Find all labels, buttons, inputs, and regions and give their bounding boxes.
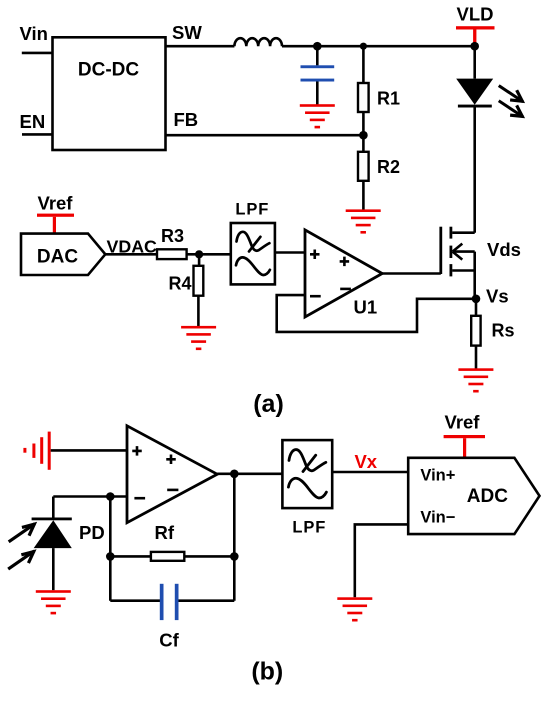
- wire to photodiode: [52, 497, 55, 518]
- node inverting input junction: [106, 492, 115, 501]
- LED arrows: [500, 86, 522, 116]
- wire Vin input: [22, 52, 53, 55]
- wire Vs to Rs: [475, 299, 478, 316]
- resistor R1: [358, 83, 369, 112]
- svg-text:SW: SW: [172, 22, 202, 43]
- node Rf right: [230, 552, 239, 561]
- ground (R2): [346, 209, 381, 233]
- svg-text:VDAC: VDAC: [107, 236, 158, 256]
- wire R1 to FB node: [362, 112, 365, 135]
- wire R2 to ground: [362, 181, 365, 210]
- capacitor C1 (blue): [301, 65, 335, 81]
- supply tee VLD (red): [456, 26, 495, 45]
- resistor R3: [157, 249, 187, 259]
- svg-text:R1: R1: [377, 89, 400, 109]
- svg-text:LPF: LPF: [235, 201, 269, 219]
- svg-text:Cf: Cf: [159, 629, 179, 650]
- node R4 junction: [195, 250, 203, 258]
- wire SW to inductor: [166, 45, 235, 48]
- op-amp U1 input signs: [310, 250, 351, 297]
- resistor R4: [194, 266, 204, 296]
- ground (R4): [181, 326, 216, 350]
- LPF block (top): [231, 223, 275, 284]
- svg-text:Vx: Vx: [354, 451, 377, 472]
- transistor Q1 (NMOS): [441, 227, 475, 299]
- svg-text:Rf: Rf: [155, 522, 175, 543]
- resistor R2: [358, 152, 369, 181]
- wire output right rail: [233, 474, 236, 601]
- wire EN input: [22, 133, 53, 136]
- svg-text:R2: R2: [377, 157, 400, 177]
- wire PD anode to ground: [52, 548, 55, 590]
- svg-text:DC-DC: DC-DC: [78, 59, 139, 80]
- wire node to R2: [362, 135, 365, 152]
- wire LPF to opamp +: [275, 251, 305, 254]
- resistor Rs: [471, 316, 480, 346]
- svg-text:ADC: ADC: [467, 486, 508, 507]
- svg-text:Vref: Vref: [445, 412, 481, 433]
- DC-DC converter block: [53, 37, 166, 150]
- ground (capacitor): [300, 104, 335, 128]
- DAC block: [21, 234, 105, 275]
- svg-text:Vds: Vds: [487, 239, 521, 260]
- wire feedback Vs to opamp inverting input: [277, 295, 476, 332]
- ground rotated (opamp b non-inverting): [23, 432, 50, 470]
- svg-text:R3: R3: [161, 226, 184, 246]
- node opamp b output: [230, 470, 239, 479]
- wire opamp output to gate: [382, 272, 441, 275]
- LED D1: [456, 79, 493, 108]
- ADC block: [408, 458, 539, 534]
- node Vs: [472, 295, 481, 304]
- wire Cf bottom right: [179, 599, 235, 602]
- wire Rs to ground: [475, 346, 478, 369]
- node VLD junction: [470, 42, 479, 51]
- wire Rf to right rail: [184, 555, 234, 558]
- ground (ADC): [337, 597, 372, 621]
- ground (Rs): [458, 368, 493, 392]
- svg-text:LPF: LPF: [292, 519, 326, 537]
- svg-text:DAC: DAC: [37, 247, 78, 268]
- svg-text:Vin: Vin: [20, 23, 48, 44]
- wire inductor to VLD node: [282, 45, 475, 48]
- wire VLD node to LED: [473, 46, 476, 78]
- LPF sine glyphs (top): [236, 232, 270, 275]
- svg-text:EN: EN: [20, 111, 46, 132]
- wire Cf bottom left: [110, 599, 160, 602]
- op-amp U1: [305, 230, 382, 317]
- wire ground to opamp b + input: [51, 449, 127, 452]
- inductor L1: [234, 38, 282, 46]
- resistor Rf: [151, 552, 184, 561]
- svg-text:Vin+: Vin+: [420, 466, 455, 484]
- svg-text:(a): (a): [253, 390, 284, 418]
- wire LED to MOSFET drain: [473, 108, 476, 233]
- op-amp A2 input signs: [132, 446, 178, 498]
- svg-text:Vs: Vs: [486, 285, 509, 306]
- photodiode PD: [32, 518, 72, 549]
- svg-text:FB: FB: [174, 109, 199, 130]
- op-amp A2 (photodiode amp): [127, 426, 217, 523]
- wire cap stem: [316, 46, 319, 65]
- wire to Rf: [110, 555, 151, 558]
- svg-text:Vref: Vref: [38, 192, 74, 213]
- photodiode light arrows: [10, 524, 35, 568]
- svg-text:(b): (b): [251, 658, 283, 686]
- ground (PD): [36, 590, 71, 614]
- wire R4 to ground: [197, 296, 200, 326]
- svg-text:U1: U1: [354, 297, 378, 318]
- wire R3 to LPF: [187, 253, 231, 256]
- node FB junction: [359, 131, 368, 140]
- svg-text:R4: R4: [169, 273, 192, 293]
- wire DAC to R3: [105, 253, 157, 256]
- supply tee Vref ADC (red): [444, 435, 485, 458]
- svg-text:PD: PD: [79, 522, 105, 543]
- node capacitor junction: [313, 42, 322, 51]
- svg-text:Vin−: Vin−: [420, 509, 455, 527]
- node R1 top junction: [360, 43, 367, 50]
- wire node to R1: [362, 46, 365, 83]
- svg-text:VLD: VLD: [457, 4, 494, 25]
- wire FB: [166, 134, 364, 137]
- wire cap to ground: [316, 82, 319, 105]
- wire feedback left rail: [109, 497, 112, 601]
- wire inverting input: [53, 495, 127, 498]
- LPF block (bottom): [282, 440, 332, 508]
- wire node to R4: [198, 254, 201, 265]
- wire ADC Vin- to ground: [355, 524, 408, 597]
- LPF sine glyphs (bottom): [288, 450, 326, 498]
- wire opamp b output to LPF: [217, 472, 282, 475]
- svg-text:Rs: Rs: [492, 320, 515, 340]
- wire LPF to ADC Vin+: [332, 471, 408, 474]
- node Rf left: [106, 552, 115, 561]
- capacitor Cf (blue): [160, 584, 179, 620]
- supply tee Vref DAC (red): [37, 214, 74, 234]
